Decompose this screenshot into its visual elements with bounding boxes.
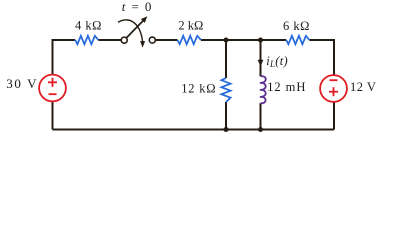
svg-text:4 kΩ: 4 kΩ [75, 19, 102, 33]
svg-text:12 mH: 12 mH [267, 80, 306, 94]
svg-text:12 kΩ: 12 kΩ [181, 82, 216, 96]
svg-text:t = 0: t = 0 [122, 0, 153, 14]
svg-text:6 kΩ: 6 kΩ [283, 19, 310, 33]
svg-text:12 V: 12 V [350, 80, 376, 94]
svg-text:30 V: 30 V [6, 76, 38, 91]
svg-text:iL(t): iL(t) [266, 54, 288, 69]
svg-text:2 kΩ: 2 kΩ [178, 18, 203, 32]
